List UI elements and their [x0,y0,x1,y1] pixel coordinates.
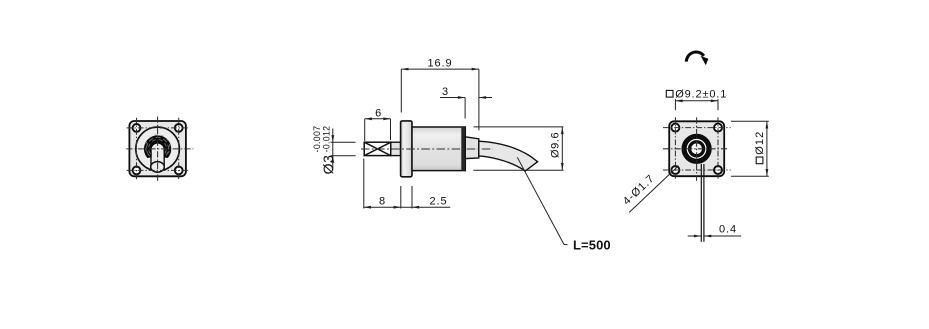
mounting hole bottom-right [714,166,722,174]
hatched shaft section (horseshoe) [145,136,171,157]
bearing hole [691,144,702,155]
dim cable diameter 9.6 [473,127,563,170]
mounting hole bottom-left [133,167,141,175]
X-box diagonal 2 [364,142,391,155]
mounting hole top-right [714,124,722,132]
mounting hole top-left [133,124,141,132]
svg-text:L=500: L=500 [573,238,611,253]
bearing ring black [686,139,706,159]
X-box diagonal 1 [364,142,391,155]
dim 3 [440,86,492,119]
svg-text:0.4: 0.4 [719,223,737,235]
dim 6 [365,107,391,141]
dim 16.9 [401,58,479,131]
centerline hole row top [127,127,189,129]
leader L=500 [517,157,610,252]
dim square 9.2 [666,88,727,110]
svg-text:2.5: 2.5 [430,196,448,208]
centerline hole column left [136,118,138,180]
axis centerline [361,148,493,150]
mounting hole top-right [175,124,183,132]
svg-text:3: 3 [442,86,448,98]
body end dark band [461,127,465,171]
flange plate (rear view square) [669,121,724,176]
neck [465,137,479,159]
dim shaft diameter with tolerance [312,126,356,175]
bearing white ring [687,140,706,159]
cable wire line left [700,164,702,242]
flange (side view) [401,121,412,177]
centerline horizontal main [663,148,728,150]
shaft side lines [150,150,152,166]
svg-text:Ø12: Ø12 [754,131,766,155]
svg-text:Ø3: Ø3 [320,155,336,175]
centerline hole row top [663,127,731,129]
bearing boss circle [136,127,180,171]
shaft end ellipse [151,162,165,173]
dim square 12 [731,121,769,176]
svg-text:Ø9.2±0.1: Ø9.2±0.1 [675,88,727,100]
mounting hole bottom-right [175,167,183,175]
centerline hole column right [178,118,180,180]
centerline hole column right [717,117,719,180]
svg-text:6: 6 [375,107,381,119]
shaft with flat (X-box) [364,142,391,155]
svg-text:-0.012: -0.012 [322,126,332,153]
leader 4-d1.7 [621,166,679,213]
centerline horizontal main [126,148,193,150]
flange plate (front view square) [129,121,186,176]
svg-text:8: 8 [379,196,385,208]
cable [479,141,538,171]
rotation direction arrow [686,52,708,65]
dim 8 and 2.5 [364,159,450,209]
horseshoe texture arcs [146,135,170,156]
svg-text:-0.007: -0.007 [312,126,322,153]
dim 0.4 [688,223,741,237]
shaft plain section [391,142,401,155]
centerline vertical main [696,117,698,180]
svg-text:Ø9.6: Ø9.6 [549,132,561,158]
centerline vertical main [157,117,159,181]
cable wire line right [703,164,705,242]
mounting hole bottom-left [671,166,679,174]
svg-text:16.9: 16.9 [427,58,452,70]
centerline hole column left [674,117,676,180]
centerline hole row bottom [663,169,731,171]
centerline hole row bottom [127,169,189,171]
body [412,127,465,171]
mounting hole top-left [671,124,679,132]
